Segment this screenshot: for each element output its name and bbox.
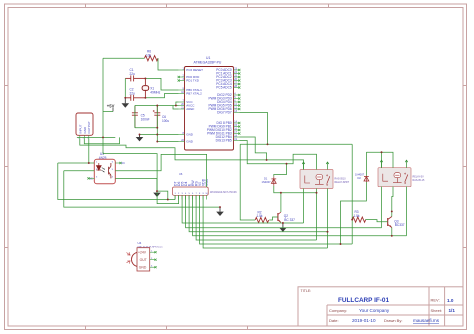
svg-text:1N4007: 1N4007 — [262, 180, 272, 184]
wire R2 feed down — [240, 144, 255, 220]
diode D2 — [355, 172, 369, 182]
U1 pin 4 DIG2 PD2 — [217, 92, 240, 97]
U1 pin 12 PWM DIG6 PD6 — [208, 106, 240, 111]
svg-text:DIG13 PB5: DIG13 PB5 — [216, 139, 232, 143]
junction — [266, 159, 268, 161]
wire relay1 pin sw1 down — [303, 189, 305, 224]
capacitor C5 — [132, 106, 150, 128]
junction — [391, 235, 393, 237]
wire D1 branch — [274, 164, 287, 177]
svg-text:OUT: OUT — [140, 258, 147, 262]
frame tick top 3 — [247, 4, 249, 8]
wire coil1 bottom — [281, 189, 317, 193]
U1 pin 2 PD0 RXD — [178, 74, 201, 79]
wire R6 to RESET — [158, 58, 179, 70]
U1 pin 7 VCC — [179, 99, 194, 104]
wire p2 route — [103, 154, 179, 204]
junction — [124, 97, 126, 99]
wire decoupling loop left — [134, 106, 136, 128]
junction — [340, 243, 342, 245]
wire Q3 emitter down — [391, 228, 393, 236]
U1 pin 19 DIG13 PB5 — [216, 138, 240, 143]
wire rail231 — [189, 195, 327, 231]
frame tick right 1 — [463, 85, 467, 87]
U1 pin 21 AREF — [179, 106, 195, 111]
wire relay1 coil col down — [316, 193, 318, 240]
junction — [88, 162, 90, 164]
wire rail248 — [203, 195, 327, 248]
svg-text:WC1602A0-SFYLYNC06: WC1602A0-SFYLYNC06 — [210, 191, 237, 194]
svg-text:mausaefi.ms: mausaefi.ms — [413, 318, 440, 323]
junction — [156, 127, 158, 129]
U1 pin 8 GND — [179, 132, 194, 137]
wire +5V rail to AVCC — [135, 105, 179, 107]
power flag +5V — [107, 103, 115, 111]
U1 pin 25 PC2 ADC2 — [216, 74, 240, 79]
svg-text:D2: D2 — [358, 176, 362, 180]
svg-text:RAS-05-15: RAS-05-15 — [413, 179, 425, 182]
svg-text:U6: U6 — [179, 172, 183, 176]
U1 pin 17 PWM DIG11 PB3 — [207, 131, 240, 136]
junction — [327, 231, 329, 233]
frame tick left 1 — [5, 85, 9, 87]
wire GND pin22 — [157, 128, 178, 142]
frame tick bottom 1 — [85, 326, 87, 330]
frame tick top 1 — [85, 4, 87, 8]
wire rail240 — [196, 195, 316, 240]
svg-text:AREF: AREF — [186, 107, 194, 111]
svg-text:PB7 XTAL2: PB7 XTAL2 — [186, 92, 202, 96]
wire XTAL2 route — [145, 94, 178, 98]
ground G1 (crystal caps) — [122, 98, 130, 108]
wire opto pin5 route — [115, 154, 206, 187]
wire reg dec line — [77, 136, 115, 138]
svg-text:Drawn By:: Drawn By: — [384, 318, 402, 323]
wire R2 to Q2 base — [269, 217, 278, 220]
svg-text:RELAY-5V: RELAY-5V — [413, 176, 425, 179]
svg-text:GND: GND — [139, 266, 147, 270]
wire header p1 up — [174, 195, 176, 199]
U1 pin 1 PC6 RESET — [179, 67, 203, 72]
svg-text:GND: GND — [186, 133, 194, 137]
svg-text:1.5k: 1.5k — [354, 214, 360, 218]
frame tick right 2 — [463, 166, 467, 168]
U1 pin 11 PWM DIG5 PD5 — [208, 103, 240, 108]
svg-text:OUTPUT: OUTPUT — [87, 121, 91, 134]
wire +5V flag tie — [103, 111, 113, 113]
svg-text:Your Company: Your Company — [359, 308, 390, 313]
junction — [144, 97, 146, 99]
junction — [391, 210, 393, 212]
svg-text:10k: 10k — [146, 53, 152, 57]
svg-text:U4: U4 — [138, 241, 142, 245]
wire reg pin2 jog — [84, 137, 119, 143]
svg-text:BC 337: BC 337 — [284, 218, 295, 222]
junction — [156, 141, 158, 143]
junction — [144, 77, 146, 79]
optocoupler U3 4N25 — [87, 152, 125, 184]
wire AREF tap — [173, 106, 179, 110]
frame tick bottom 3 — [247, 326, 249, 330]
wire rail144 — [240, 143, 352, 145]
svg-text:D1: D1 — [264, 177, 268, 181]
ground G4 (header net) — [216, 207, 224, 216]
relay K1 — [300, 170, 350, 189]
wire rail227 — [186, 195, 382, 228]
transistor Q2 — [278, 212, 295, 223]
U1 pin 20 AVCC — [179, 103, 196, 108]
ground G3 (optocoupler) — [153, 191, 161, 197]
junction — [156, 105, 158, 107]
junction — [156, 134, 158, 136]
junction — [139, 134, 141, 136]
wire PB4 relay1 seg — [267, 160, 304, 170]
svg-text:2019-01-10: 2019-01-10 — [352, 318, 376, 323]
wire R3 down to rail — [351, 220, 353, 244]
wire R3 feed down — [351, 144, 353, 219]
junction — [167, 199, 169, 201]
wire R3 to Q3 base — [365, 220, 387, 222]
ground G5 (Q2 emitter) — [279, 223, 287, 232]
svg-text:1.0: 1.0 — [447, 298, 454, 303]
svg-text:1/1: 1/1 — [449, 308, 456, 313]
wire GND pin8 — [140, 134, 179, 136]
wire D2 wire to coil2 — [366, 152, 393, 168]
wire opto pin4 gnd — [115, 178, 168, 199]
voltage regulator U2 — [76, 113, 93, 139]
wire relay2 pin1 up — [381, 152, 383, 168]
junction — [282, 222, 284, 224]
transistor Q3 — [388, 217, 405, 228]
crystal X1 — [142, 78, 161, 97]
junction — [156, 190, 158, 192]
svg-text:FULLCARP IF-01: FULLCARP IF-01 — [338, 297, 389, 304]
U1 pin 26 PC3 ADC3 — [216, 78, 240, 83]
frame tick top 2 — [166, 4, 168, 8]
U1 pin 15 PWM DIG9 PB1 — [209, 124, 241, 129]
diode D1 — [262, 176, 277, 185]
svg-text:1.5k: 1.5k — [257, 214, 263, 218]
svg-text:Sheet:: Sheet: — [431, 308, 443, 313]
wire D2 bottom — [341, 182, 367, 244]
svg-text:PC6 RESET: PC6 RESET — [186, 68, 203, 72]
wire D1 bottom — [274, 186, 281, 193]
wire XTAL1 route — [145, 78, 178, 90]
svg-text:TITLE:: TITLE: — [301, 289, 312, 293]
wire reg pin3 to opto — [88, 139, 90, 163]
relay K2 — [378, 168, 425, 187]
wire reg pin1 down — [80, 139, 267, 160]
svg-text:DIG7 PD7: DIG7 PD7 — [217, 111, 232, 115]
U1 pin 3 PD1 TXD — [178, 78, 200, 83]
U1 pin 16 PWM DIG10 PB2 — [207, 127, 241, 132]
frame tick top 4 — [328, 4, 330, 8]
svg-text:GND: GND — [186, 140, 194, 144]
ground G2 (IC pin 8) — [136, 135, 144, 142]
svg-text:PD1 TXD: PD1 TXD — [186, 79, 199, 83]
title block outline — [298, 287, 463, 326]
svg-text:49MHz: 49MHz — [150, 91, 161, 95]
wire coil2 bottom — [392, 187, 393, 212]
frame tick left 3 — [5, 247, 9, 249]
IC U1 ATMEGA328P-PU body — [185, 56, 234, 150]
U1 pin 6 DIG4 PD4 — [217, 99, 240, 104]
relay K1 pin stub arrows — [302, 162, 329, 170]
U1 pin 5 PWM DIG3 PD3 — [208, 96, 240, 101]
svg-text:RAS-0510: RAS-0510 — [335, 177, 347, 180]
junction — [286, 163, 288, 165]
frame tick right 3 — [463, 247, 467, 249]
wire relay1 pin sw2 down — [327, 189, 329, 249]
capacitor C6 — [153, 106, 170, 128]
svg-text:Company:: Company: — [329, 308, 347, 313]
junction — [316, 192, 318, 194]
wire relay2 pin sw1 down — [381, 187, 383, 228]
U1 pin 24 PC1 ADC1 — [216, 71, 240, 76]
frame tick left 2 — [5, 166, 9, 168]
junction — [102, 136, 104, 138]
svg-text:100u: 100u — [162, 119, 169, 123]
wire decoupling loop right — [156, 106, 158, 128]
svg-text:BC337: BC337 — [395, 223, 405, 227]
svg-text:ATMEGA328P-PU: ATMEGA328P-PU — [194, 61, 222, 65]
U1 pin 22 GND — [179, 139, 194, 144]
junction — [267, 143, 269, 145]
frame tick bottom 2 — [166, 326, 168, 330]
U1 pin 18 DIG12 PB4 — [216, 134, 240, 139]
wire decoupling loop bottom — [135, 127, 157, 129]
relay K2 pin stub arrows — [380, 160, 408, 168]
wire Q2 collector — [280, 193, 282, 212]
wire opto pin2 feed — [64, 170, 95, 172]
wire opto net left — [58, 163, 175, 200]
U1 pin 13 DIG7 PD7 — [217, 110, 239, 115]
wire Q3 collector up — [391, 211, 393, 216]
wire gnd rail — [64, 171, 220, 207]
U1 pin 9 PB6 XTAL1 — [179, 87, 202, 92]
sensor U4 — [127, 241, 164, 271]
wire PB5 route — [239, 141, 316, 170]
junction — [381, 151, 383, 153]
wire opto pin1 feed — [58, 162, 95, 164]
wire rail PD7 — [239, 113, 267, 145]
svg-text:+5V: +5V — [107, 103, 115, 108]
junction — [351, 219, 353, 221]
wire D2 top — [365, 152, 367, 175]
svg-text:22u: 22u — [130, 92, 136, 96]
connector P1 header — [173, 172, 238, 200]
resistor R6 — [145, 50, 159, 61]
wire rail223 — [182, 195, 303, 223]
wire VCC tap — [176, 102, 179, 106]
svg-text:Date:: Date: — [329, 318, 339, 323]
capacitor C1 — [125, 68, 145, 81]
wire +5V to R6 — [103, 57, 145, 59]
svg-text:U1: U1 — [206, 56, 210, 60]
U1 pin 28 PC5 ADC5 — [216, 85, 240, 90]
capacitor C2 — [125, 88, 145, 101]
svg-text:100nF: 100nF — [141, 117, 150, 121]
wire +5V vertical — [102, 58, 104, 153]
U1 pin 14 DIG 8 PB0 — [216, 120, 240, 125]
U1 pin 23 PC0 ADC0 — [216, 67, 240, 72]
svg-text:NC: NC — [122, 162, 126, 165]
svg-text:22u: 22u — [130, 72, 136, 76]
wire rail235 — [193, 195, 407, 236]
resistor R3 — [352, 210, 366, 222]
svg-text:+24V: +24V — [138, 251, 147, 255]
junction — [280, 192, 282, 194]
svg-text:PC5 ADC5: PC5 ADC5 — [216, 86, 232, 90]
junction — [175, 105, 177, 107]
junction — [219, 206, 221, 208]
wire PB4 route — [239, 137, 266, 160]
wire Q2 emitter down — [282, 221, 284, 224]
wire rail244 — [200, 195, 353, 244]
U1 pin 10 PB7 XTAL2 — [179, 91, 202, 96]
svg-text:1N4007: 1N4007 — [355, 172, 365, 176]
wire C1-C2 left — [124, 78, 126, 97]
svg-text:RELAY-SPDT: RELAY-SPDT — [335, 181, 350, 184]
resistor R2 — [255, 211, 269, 223]
wire relay2 pin sw2 down — [406, 187, 408, 236]
svg-text:REV:: REV: — [431, 298, 440, 303]
U1 pin 27 PC4 ADC4 — [216, 81, 240, 86]
